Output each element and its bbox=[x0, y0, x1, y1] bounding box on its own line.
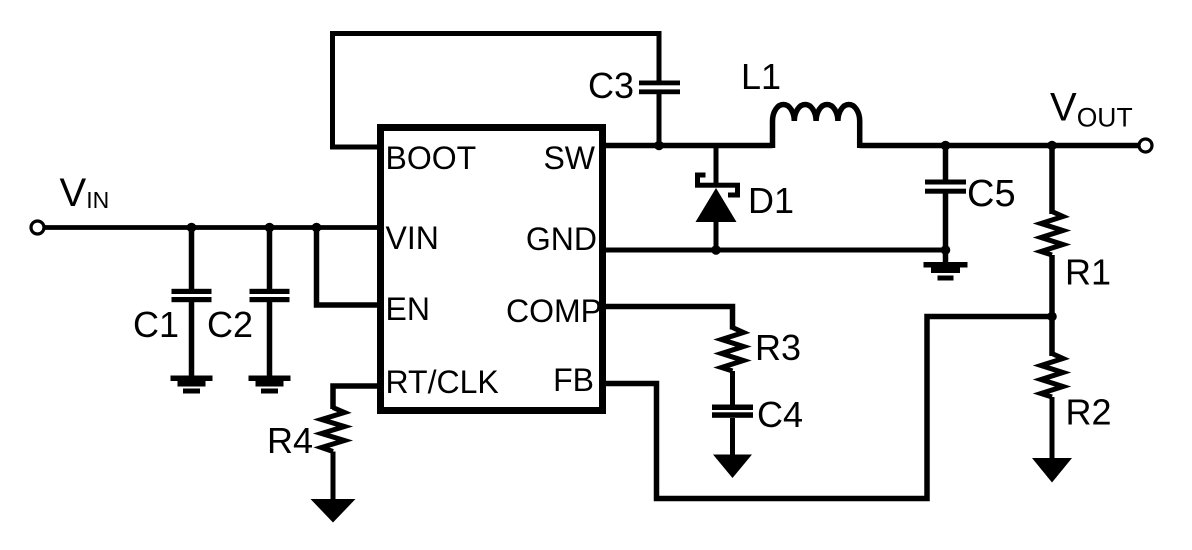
capacitor C3 bbox=[639, 81, 680, 95]
wire R1 bottom bbox=[1049, 255, 1055, 317]
capacitor C4 bbox=[712, 405, 753, 418]
svg-text:COMP: COMP bbox=[506, 293, 602, 329]
wire R3 to C4 bbox=[730, 371, 735, 406]
node D1/GND bbox=[711, 245, 721, 255]
wire C1 bottom bbox=[189, 302, 195, 377]
wire R4 bottom bbox=[331, 452, 336, 502]
capacitor C1 bbox=[172, 289, 212, 302]
resistor R1 bbox=[1041, 212, 1063, 256]
node C5 top bbox=[941, 141, 951, 151]
ground C2 bbox=[249, 376, 291, 394]
ground C1 bbox=[171, 376, 213, 394]
resistor R3 bbox=[722, 328, 744, 372]
svg-text:BOOT: BOOT bbox=[386, 140, 477, 176]
wire SW to VOUT bbox=[860, 143, 1139, 149]
wire FB path bbox=[602, 317, 1052, 499]
ground C5 bbox=[924, 262, 968, 281]
wire BOOT loop bbox=[333, 34, 660, 148]
wire EN bbox=[317, 228, 381, 306]
node FB bbox=[1047, 312, 1057, 322]
ground R2 bbox=[1032, 458, 1072, 483]
diode D1 bbox=[695, 175, 740, 222]
wire C1 top bbox=[189, 228, 195, 290]
resistor R2 bbox=[1041, 354, 1063, 398]
wire C5 top bbox=[943, 146, 949, 181]
svg-text:R3: R3 bbox=[755, 327, 801, 368]
node C2 tap bbox=[265, 223, 275, 233]
wire C2 top bbox=[267, 228, 273, 290]
ground R4 bbox=[311, 499, 356, 523]
svg-text:L1: L1 bbox=[741, 56, 781, 97]
wire VIN rail bbox=[44, 225, 380, 230]
svg-text:C2: C2 bbox=[207, 304, 253, 345]
svg-text:VIN: VIN bbox=[386, 220, 439, 256]
svg-text:C5: C5 bbox=[967, 173, 1016, 215]
node SW/C3 bbox=[654, 141, 664, 151]
wire C4 bottom bbox=[730, 418, 735, 457]
wire C5 bottom bbox=[943, 193, 949, 262]
svg-text:D1: D1 bbox=[748, 180, 794, 221]
wire D1 top bbox=[714, 146, 719, 187]
resistor R4 bbox=[322, 408, 345, 452]
wire C3 to SW bbox=[657, 94, 662, 148]
wire COMP bbox=[602, 307, 733, 330]
svg-text:GND: GND bbox=[526, 221, 597, 257]
wire RT/CLK bbox=[333, 386, 380, 409]
terminal VOUT bbox=[1139, 139, 1152, 152]
svg-text:C1: C1 bbox=[133, 304, 179, 345]
node C1 tap bbox=[187, 223, 197, 233]
svg-text:C3: C3 bbox=[588, 65, 634, 106]
wire R2 top bbox=[1049, 317, 1055, 357]
svg-text:R1: R1 bbox=[1065, 252, 1111, 293]
wire SW rail bbox=[602, 143, 773, 149]
svg-text:R4: R4 bbox=[267, 420, 313, 461]
wire GND rail bbox=[602, 248, 946, 253]
svg-text:EN: EN bbox=[386, 291, 430, 327]
svg-text:R2: R2 bbox=[1066, 392, 1112, 433]
inductor L1 bbox=[773, 105, 860, 149]
wire R1 top bbox=[1049, 146, 1055, 215]
terminal VIN bbox=[31, 221, 44, 234]
op-amp U1 bbox=[381, 128, 603, 411]
svg-text:FB: FB bbox=[553, 362, 594, 398]
svg-text:RT/CLK: RT/CLK bbox=[386, 364, 499, 400]
wire R2 bottom bbox=[1050, 397, 1055, 460]
node C5/GND bbox=[941, 245, 951, 255]
capacitor C2 bbox=[250, 289, 290, 302]
ground C4 bbox=[713, 455, 752, 479]
svg-text:SW: SW bbox=[543, 140, 595, 176]
wire C2 bottom bbox=[267, 302, 273, 377]
svg-text:C4: C4 bbox=[757, 394, 803, 435]
wire D1 bottom bbox=[714, 222, 719, 252]
node VOUT bbox=[1047, 141, 1057, 151]
node EN tap bbox=[312, 223, 322, 233]
capacitor C5 bbox=[925, 180, 966, 194]
